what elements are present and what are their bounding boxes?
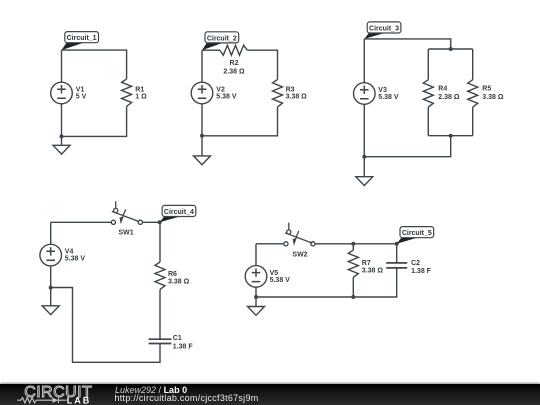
svg-text:5.38 V: 5.38 V — [270, 277, 291, 284]
svg-text:V4: V4 — [65, 249, 74, 256]
svg-text:V2: V2 — [216, 86, 225, 93]
svg-text:V5: V5 — [270, 270, 279, 277]
svg-text:R7: R7 — [362, 260, 371, 267]
svg-text:SW1: SW1 — [119, 229, 134, 236]
svg-text:R2: R2 — [230, 60, 239, 67]
svg-text:3.38 Ω: 3.38 Ω — [482, 94, 504, 101]
svg-text:Circuit_2: Circuit_2 — [207, 35, 237, 42]
svg-text:2.38 Ω: 2.38 Ω — [223, 69, 245, 76]
svg-text:3.38 Ω: 3.38 Ω — [168, 279, 190, 286]
svg-text:C1: C1 — [173, 335, 182, 342]
svg-text:5.38 V: 5.38 V — [216, 93, 237, 100]
svg-text:R3: R3 — [286, 86, 295, 93]
svg-text:5.38 V: 5.38 V — [378, 94, 399, 101]
svg-text:V3: V3 — [378, 87, 387, 94]
svg-text:Circuit_4: Circuit_4 — [164, 209, 194, 216]
svg-text:R6: R6 — [168, 271, 177, 278]
svg-text:1.38 F: 1.38 F — [173, 344, 194, 351]
svg-text:3.38 Ω: 3.38 Ω — [362, 268, 384, 275]
svg-text:Circuit_1: Circuit_1 — [67, 35, 97, 42]
svg-text:5.38 V: 5.38 V — [65, 256, 86, 263]
svg-text:R5: R5 — [482, 85, 491, 92]
svg-text:2.38 Ω: 2.38 Ω — [438, 94, 460, 101]
svg-text:5 V: 5 V — [76, 93, 87, 100]
svg-text:R1: R1 — [135, 86, 144, 93]
svg-text:V1: V1 — [76, 86, 85, 93]
svg-text:1.38 F: 1.38 F — [411, 268, 432, 275]
svg-text:Circuit_3: Circuit_3 — [369, 25, 399, 32]
svg-text:C2: C2 — [411, 260, 420, 267]
svg-text:1 Ω: 1 Ω — [135, 94, 147, 101]
svg-text:Circuit_5: Circuit_5 — [402, 230, 432, 237]
svg-text:LAB: LAB — [67, 396, 92, 405]
svg-text:R4: R4 — [438, 85, 447, 92]
svg-text:3.38 Ω: 3.38 Ω — [286, 94, 308, 101]
svg-text:SW2: SW2 — [292, 251, 307, 258]
